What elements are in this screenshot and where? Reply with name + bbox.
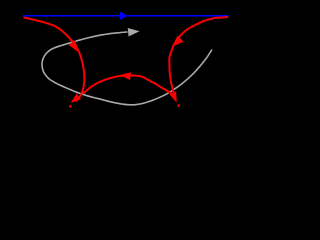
red bounce arc left-pointing arrowhead	[120, 72, 131, 80]
gray orbit arrowhead	[128, 28, 140, 36]
red left branch terminal arrowhead	[71, 94, 81, 103]
blue field line	[23, 15, 229, 17]
red right branch terminal arrowhead	[169, 92, 176, 103]
red right branch mid arrowhead	[172, 36, 184, 47]
blue field line arrowhead	[120, 11, 128, 20]
red trajectory right branch	[169, 17, 228, 93]
red trajectory left branch	[24, 18, 85, 102]
red right mirror point dot	[177, 104, 180, 107]
red left branch mid arrowhead	[68, 40, 77, 52]
red bounce arc between mirror points	[83, 75, 174, 95]
red left mirror point dot	[69, 105, 72, 108]
gray drift orbit (open oval)	[42, 32, 212, 105]
